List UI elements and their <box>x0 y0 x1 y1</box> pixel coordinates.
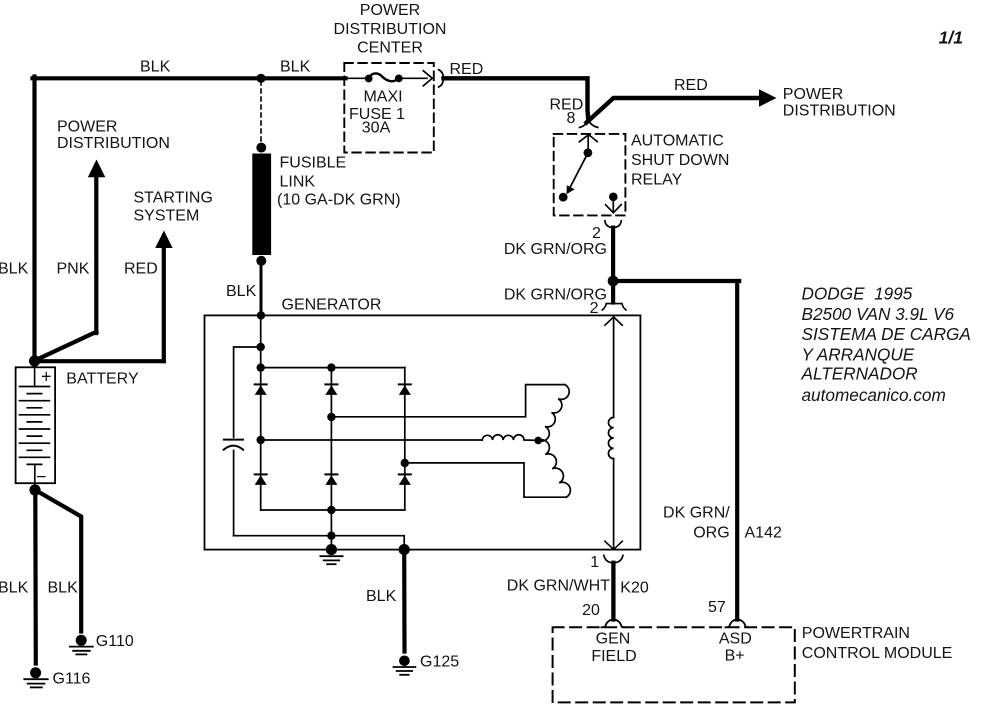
wire stator phase C from col3 <box>405 463 566 497</box>
svg-text:POWER: POWER <box>360 2 420 19</box>
label POWER DISTRIBUTION CENTER title <box>334 2 447 57</box>
node phase tap col2 <box>327 413 335 421</box>
capacitor C1 bottom plate (curved) <box>224 446 243 450</box>
svg-text:BLK: BLK <box>0 580 29 597</box>
svg-text:AUTOMATIC: AUTOMATIC <box>631 133 724 150</box>
svg-text:20: 20 <box>582 602 600 619</box>
diode D4 lower col1 <box>255 474 267 485</box>
wire BLK generator case to G125 <box>402 550 406 652</box>
connector male chevron generator pin 2 <box>605 317 622 325</box>
svg-text:8: 8 <box>567 110 576 127</box>
svg-text:automecanico.com: automecanico.com <box>802 385 946 405</box>
node relay throw contact left <box>559 193 568 202</box>
connector bump PCM pin 20 <box>601 620 625 628</box>
node relay common contact <box>584 148 593 157</box>
node fusible link top <box>256 143 266 153</box>
svg-text:1/1: 1/1 <box>939 28 963 48</box>
wire RED diagonal branch to power distribution arrow <box>587 98 761 123</box>
relay output lead pin 2 <box>612 197 614 212</box>
wire diode column 2 <box>330 368 332 510</box>
diode rectifier top bus <box>261 367 405 369</box>
connector female cup below relay pin 2 <box>605 221 621 228</box>
node junction top BLK splice <box>256 74 265 83</box>
label STARTING SYSTEM <box>134 190 213 225</box>
node phase tap col1 <box>257 436 265 444</box>
relay box automatic shut down relay (dashed) <box>554 134 626 216</box>
svg-text:+: + <box>41 367 52 387</box>
svg-text:DISTRIBUTION: DISTRIBUTION <box>57 135 170 152</box>
node generator B+ tap <box>257 343 265 351</box>
svg-text:2: 2 <box>592 225 601 242</box>
diode D3 upper col3 <box>399 384 411 395</box>
svg-text:PNK: PNK <box>57 261 90 278</box>
node phase tap col3 <box>401 459 409 467</box>
node relay output contact pin 2 <box>609 193 618 202</box>
svg-text:G110: G110 <box>96 633 134 650</box>
svg-text:DK GRN/WHT: DK GRN/WHT <box>507 577 610 594</box>
diode D1 upper col1 <box>255 384 267 395</box>
wire BLK battery negative diagonal to G110 <box>36 491 81 632</box>
stator winding phase C coil <box>538 440 570 498</box>
node splice DK GRN/ORG <box>608 276 619 287</box>
connector female flare relay pin 8 <box>580 120 598 128</box>
connector female cup at fuse output <box>439 70 444 87</box>
svg-text:BLK: BLK <box>48 580 79 597</box>
svg-text:K20: K20 <box>620 579 649 596</box>
wire stub splice down to generator pin 2 <box>611 281 615 303</box>
svg-text:ALTERNADOR: ALTERNADOR <box>801 364 918 384</box>
wire diode column 3 <box>404 368 406 510</box>
relay fixed contact lead pin 8 <box>587 135 589 150</box>
connector male chevron generator pin 1 <box>605 541 622 549</box>
svg-text:STARTING: STARTING <box>134 190 213 207</box>
stator winding phase B coil <box>482 435 536 441</box>
svg-text:LINK: LINK <box>280 173 316 190</box>
label PCM pin ASD B+ <box>719 630 752 664</box>
svg-text:BLK: BLK <box>366 588 397 605</box>
capacitor C1 top plate <box>224 439 243 441</box>
diode D2 upper col2 <box>325 384 337 395</box>
wire BLK top horizontal battery-to-fuse <box>33 76 346 80</box>
svg-text:ASD: ASD <box>719 630 752 647</box>
svg-text:DISTRIBUTION: DISTRIBUTION <box>783 103 896 120</box>
stator winding phase A coil <box>538 385 569 442</box>
svg-text:CENTER: CENTER <box>357 40 423 57</box>
connector female cup generator pin 1 <box>604 555 623 563</box>
dashed wire segment above fusible link <box>260 81 262 143</box>
svg-text:BLK: BLK <box>140 59 171 76</box>
battery B1 case <box>16 367 56 483</box>
label FUSIBLE LINK (10 GA-DK GRN) <box>277 155 401 209</box>
node battery negative terminal <box>29 484 40 495</box>
node fusible link bottom <box>256 256 266 266</box>
svg-text:MAXI: MAXI <box>363 89 402 106</box>
wire DK GRN/ORG A142 vertical to PCM pin 57 <box>735 281 739 620</box>
svg-text:POWER: POWER <box>57 118 117 135</box>
arrowhead RED starting system <box>155 231 172 249</box>
svg-text:DISTRIBUTION: DISTRIBUTION <box>334 21 447 38</box>
connector female flare generator pin 2 <box>602 304 626 310</box>
fuse box power distribution center (dashed) <box>344 63 434 153</box>
svg-text:G116: G116 <box>53 671 91 688</box>
svg-text:ORG: ORG <box>693 524 729 541</box>
wire rotor field lower lead <box>613 459 615 549</box>
wire rotor field upper lead <box>613 317 615 418</box>
diode D5 lower col2 <box>325 474 337 485</box>
battery positive stub <box>34 361 36 387</box>
svg-text:BLK: BLK <box>226 283 257 300</box>
svg-text:RED: RED <box>674 77 708 94</box>
arrowhead relay arm <box>567 185 575 194</box>
wire capacitor to case ground bus <box>233 451 235 536</box>
svg-text:A142: A142 <box>745 525 782 542</box>
ground G110 <box>70 635 93 655</box>
wire col2 to case ground <box>330 510 332 549</box>
label PCM pin GEN FIELD <box>591 630 636 664</box>
svg-text:57: 57 <box>708 599 726 616</box>
svg-text:BLK: BLK <box>0 261 29 278</box>
svg-text:GEN: GEN <box>596 630 631 647</box>
fuse F1 lead right with male connector arrow <box>402 77 427 79</box>
relay movable arm <box>570 155 587 187</box>
ground G116 <box>24 667 47 687</box>
battery plates <box>20 387 50 465</box>
svg-text:CONTROL MODULE: CONTROL MODULE <box>802 645 953 662</box>
wire generator internal B+ vertical <box>260 315 262 367</box>
node generator case stud to G125 <box>399 544 410 555</box>
diode rectifier bottom bus <box>261 509 405 511</box>
wire RED vertical arrow shaft starting system <box>162 245 166 361</box>
battery negative stub <box>34 464 36 489</box>
svg-text:SYSTEM: SYSTEM <box>134 208 200 225</box>
generator box outline <box>205 315 641 549</box>
connector bump PCM pin 57 <box>725 620 749 628</box>
wire stator phase B from col1 <box>261 439 483 441</box>
node col2 ground bus crossing <box>327 532 335 540</box>
ground G125 <box>394 656 416 675</box>
node top bus col1 <box>257 363 265 371</box>
node stator star point <box>534 437 542 445</box>
svg-text:RED: RED <box>124 261 158 278</box>
wire RED horizontal from battery positive <box>35 359 164 363</box>
svg-text:FUSIBLE: FUSIBLE <box>280 155 347 172</box>
svg-text:1: 1 <box>590 554 599 571</box>
svg-text:−: − <box>36 467 47 487</box>
fusible link element (10 GA-DK GRN) <box>252 154 271 256</box>
wire case ground bus horizontal <box>234 536 405 549</box>
svg-text:DK GRN/ORG: DK GRN/ORG <box>504 241 607 258</box>
diode D6 lower col3 <box>399 474 411 485</box>
arrowhead RED power distribution right <box>759 89 777 107</box>
wire DK GRN/ORG splice to A142 corner <box>613 279 739 283</box>
svg-text:Y ARRANQUE: Y ARRANQUE <box>802 344 915 364</box>
node top bus col2 <box>327 363 335 371</box>
wire to capacitor branch <box>234 347 261 437</box>
wire stator phase A from col2 <box>331 385 564 417</box>
PCM box powertrain control module (dashed) <box>553 627 795 702</box>
label title block DODGE 1995 B2500 VAN <box>801 284 971 406</box>
wire RED fuse output to relay and power distribution <box>444 78 589 119</box>
fuse F1 element MAXI FUSE 1 30A <box>369 73 399 81</box>
wire DK GRN/ORG relay pin 2 down to splice <box>611 228 615 280</box>
svg-text:POWERTRAIN: POWERTRAIN <box>802 625 910 642</box>
svg-text:30A: 30A <box>362 120 391 137</box>
svg-text:RED: RED <box>450 61 484 78</box>
node bottom bus col2 <box>327 506 335 514</box>
svg-text:(10 GA-DK GRN): (10 GA-DK GRN) <box>277 192 401 209</box>
wire BLK battery negative to G116 <box>33 490 38 664</box>
wire BLK left vertical down to battery <box>32 77 36 361</box>
svg-text:POWER: POWER <box>783 86 843 103</box>
svg-text:B+: B+ <box>725 647 745 664</box>
connector male chevron relay pin 8 <box>579 135 597 142</box>
svg-text:GENERATOR: GENERATOR <box>282 297 382 314</box>
label wire DK GRN/ ORG A142 <box>663 505 730 542</box>
wire PNK vertical arrow shaft <box>94 176 98 334</box>
label POWER DISTRIBUTION left <box>57 118 170 151</box>
fuse F1 lead left <box>346 77 367 79</box>
rotor field winding coil <box>608 417 613 458</box>
connector male chevron relay pin 2 <box>606 205 622 213</box>
wire BLK fusible link to generator <box>260 263 263 315</box>
svg-text:FIELD: FIELD <box>591 648 636 665</box>
node battery positive terminal <box>29 355 40 366</box>
svg-text:DK GRN/: DK GRN/ <box>663 505 730 522</box>
svg-text:BLK: BLK <box>280 59 311 76</box>
wire DK GRN/WHT K20 generator pin1 to PCM pin 20 <box>611 563 615 620</box>
svg-text:SHUT DOWN: SHUT DOWN <box>631 152 729 169</box>
label AUTOMATIC SHUT DOWN RELAY <box>631 133 729 189</box>
label POWERTRAIN CONTROL MODULE <box>802 625 953 662</box>
svg-text:2: 2 <box>590 300 599 317</box>
svg-text:B2500 VAN 3.9L V6: B2500 VAN 3.9L V6 <box>802 304 955 324</box>
svg-text:SISTEMA DE CARGA: SISTEMA DE CARGA <box>802 324 971 344</box>
connector male chevron at fuse output <box>423 71 432 86</box>
node generator BLK input on box edge <box>257 311 265 319</box>
svg-text:G125: G125 <box>420 654 459 671</box>
arrowhead PNK power distribution <box>88 160 106 178</box>
wire diode column 1 <box>260 368 262 510</box>
label MAXI FUSE 1 30A <box>349 89 405 137</box>
wire PNK diagonal from battery positive <box>36 332 97 360</box>
svg-text:DODGE 1995: DODGE 1995 <box>802 284 913 304</box>
svg-text:BATTERY: BATTERY <box>66 371 139 388</box>
ground generator case <box>320 544 342 564</box>
svg-text:RELAY: RELAY <box>631 171 683 188</box>
